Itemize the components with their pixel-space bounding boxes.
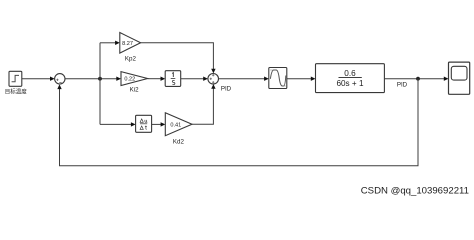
svg-text:0.41: 0.41	[170, 122, 181, 128]
gain Kp2	[120, 33, 141, 54]
svg-text:Kp2: Kp2	[125, 56, 137, 63]
wire plant to scope	[384, 78, 444, 80]
wire saturation to plant	[287, 78, 311, 80]
wire du/dt branch	[100, 123, 131, 125]
gain Ki2	[121, 72, 148, 86]
svg-text:60s + 1: 60s + 1	[336, 79, 364, 88]
wire Kd2 to sum2 bottom	[192, 89, 213, 125]
node junction	[98, 77, 102, 81]
svg-text:CSDN @qq_1039692211: CSDN @qq_1039692211	[361, 186, 469, 197]
svg-text:目标温度: 目标温度	[5, 87, 28, 95]
wire to Kp2	[100, 42, 116, 44]
sum2 PID	[208, 74, 219, 85]
sum1	[55, 74, 65, 84]
wire integrator to sum2	[181, 78, 204, 80]
svg-text:8.27: 8.27	[122, 41, 133, 47]
wire sum2 to saturation	[219, 78, 265, 80]
svg-text:PID: PID	[221, 85, 232, 92]
svg-text:Ki2: Ki2	[130, 87, 140, 94]
wire sum1 to Ki2 with junction	[65, 78, 117, 80]
svg-text:Kd2: Kd2	[173, 138, 185, 145]
wire Kp2 to sum2 top	[141, 43, 214, 69]
saturation block	[269, 68, 287, 89]
svg-text:0.22: 0.22	[124, 77, 135, 83]
wire Ki2 to integrator	[148, 78, 161, 80]
wire step to sum1	[22, 78, 51, 80]
svg-text:PID: PID	[397, 81, 408, 88]
scope	[449, 62, 470, 94]
wire du/dt to Kd2	[152, 123, 161, 125]
step source block 目标温度	[9, 71, 22, 86]
gain Kd2	[165, 113, 192, 136]
transfer function 0.6/(60s+1)	[316, 64, 385, 93]
derivative du/dt	[136, 115, 152, 132]
wire feedback loop	[60, 79, 419, 166]
node junction feedback	[416, 77, 420, 81]
wire vertical branch	[99, 43, 101, 125]
integrator 1/s	[165, 71, 181, 87]
svg-text:0.6: 0.6	[344, 69, 356, 78]
